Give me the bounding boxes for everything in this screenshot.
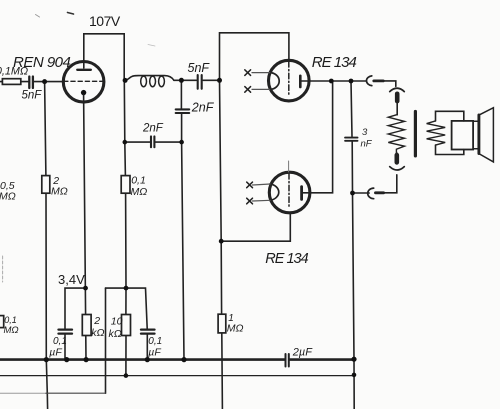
svg-text:3: 3 [362, 127, 368, 138]
svg-text:0,1: 0,1 [4, 315, 17, 325]
svg-text:5nF: 5nF [22, 90, 43, 102]
svg-text:MΩ: MΩ [51, 186, 68, 198]
svg-text:107V: 107V [89, 13, 121, 29]
svg-text:0,1: 0,1 [53, 336, 67, 347]
svg-text:2nF: 2nF [191, 101, 215, 115]
svg-text:0,1: 0,1 [131, 174, 146, 186]
svg-text:MΩ: MΩ [227, 323, 244, 335]
svg-text:µF: µF [49, 347, 62, 359]
svg-text:RE 134: RE 134 [312, 54, 357, 71]
svg-text:3,4V: 3,4V [58, 272, 85, 287]
svg-text:RE 134: RE 134 [265, 251, 308, 267]
svg-text:kΩ: kΩ [91, 327, 104, 339]
svg-text:0,1: 0,1 [148, 336, 162, 347]
svg-text:MΩ: MΩ [4, 325, 19, 336]
svg-text:2: 2 [93, 315, 100, 327]
svg-text:0,1MΩ: 0,1MΩ [0, 66, 28, 78]
svg-text:µF: µF [148, 347, 161, 359]
svg-text:2nF: 2nF [142, 123, 164, 135]
svg-text:MΩ: MΩ [131, 186, 148, 198]
svg-text:5nF: 5nF [188, 61, 211, 75]
svg-text:kΩ: kΩ [109, 328, 122, 340]
svg-text:nF: nF [361, 138, 373, 149]
svg-text:2µF: 2µF [292, 347, 313, 359]
svg-text:MΩ: MΩ [0, 191, 16, 203]
svg-text:10: 10 [111, 316, 123, 328]
